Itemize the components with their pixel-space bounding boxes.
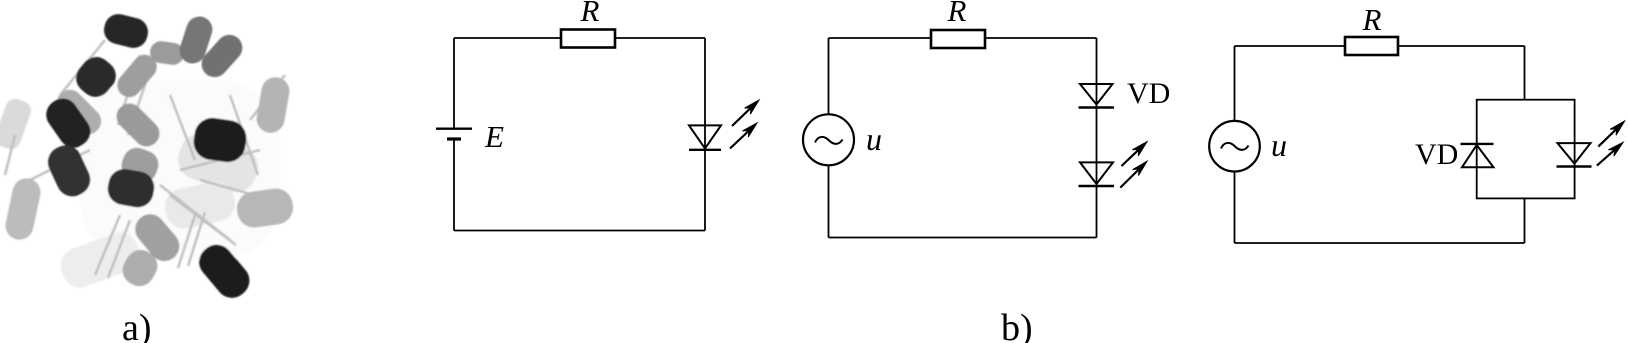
faint background patches bbox=[80, 80, 280, 260]
wire: circuit1 right side bbox=[704, 38, 706, 231]
resistor R (circuit 2) bbox=[931, 30, 985, 48]
wire: circuit1 top right segment bbox=[615, 37, 705, 39]
svg-text:u: u bbox=[866, 121, 882, 157]
wire: circuit3 bottom bbox=[1235, 242, 1525, 244]
LED emission arrows (circuit 3) bbox=[1597, 121, 1625, 166]
svg-text:a): a) bbox=[122, 307, 152, 343]
svg-text:VD: VD bbox=[1415, 138, 1458, 171]
wire: circuit3 top left segment bbox=[1235, 45, 1346, 47]
wire: circuit2 top right segment bbox=[985, 37, 1097, 39]
LED (circuit 3, pointing down) bbox=[1557, 143, 1592, 166]
wire: circuit1 top left segment bbox=[454, 37, 561, 39]
svg-text:VD: VD bbox=[1127, 77, 1170, 110]
dark capsules bbox=[101, 11, 151, 51]
svg-text:R: R bbox=[580, 0, 600, 28]
resistor R (circuit 3) bbox=[1345, 37, 1398, 55]
diode VD (circuit 2 top) bbox=[1079, 84, 1115, 108]
wire: circuit3 right upper drop bbox=[1524, 46, 1526, 100]
wire: circuit2 right side bbox=[1096, 38, 1098, 238]
svg-text:R: R bbox=[947, 0, 967, 28]
LED emission arrows (circuit 2) bbox=[1120, 142, 1147, 188]
wire: circuit2 bottom bbox=[829, 237, 1097, 239]
LED VD1 emission arrows bbox=[730, 100, 759, 149]
svg-text:b): b) bbox=[1001, 307, 1033, 343]
parallel box wires (circuit 3) bbox=[1477, 100, 1575, 199]
leads (thin light lines) bbox=[5, 40, 285, 278]
svg-text:R: R bbox=[1362, 2, 1382, 37]
LED (circuit 2 bottom) bbox=[1079, 162, 1115, 186]
wire: circuit3 left below source bbox=[1234, 172, 1236, 244]
wire: circuit2 left above source bbox=[828, 38, 830, 114]
svg-text:u: u bbox=[1271, 127, 1287, 163]
wire: circuit3 left above source bbox=[1234, 46, 1236, 121]
AC source u (circuit 3) bbox=[1209, 121, 1260, 172]
wire: circuit3 top right segment bbox=[1398, 45, 1525, 47]
wire: circuit3 right lower drop bbox=[1524, 198, 1526, 243]
diode VD (circuit 3, pointing up) bbox=[1461, 144, 1494, 167]
gray capsules bbox=[149, 40, 186, 67]
LED VD1 (circuit 1) bbox=[689, 125, 721, 149]
wire: circuit1 bottom bbox=[454, 230, 705, 232]
wire: circuit2 top left segment bbox=[829, 37, 932, 39]
wire: circuit2 left below source bbox=[828, 165, 830, 237]
resistor R (circuit 1) bbox=[561, 30, 615, 48]
wire: circuit1 left below battery bbox=[453, 139, 455, 231]
svg-text:E: E bbox=[484, 119, 504, 154]
photo of scattered LEDs (panel a) bbox=[0, 11, 295, 304]
battery E plates bbox=[436, 129, 472, 139]
wire: circuit1 left above battery bbox=[453, 38, 455, 128]
AC source u (circuit 2) bbox=[803, 114, 854, 165]
